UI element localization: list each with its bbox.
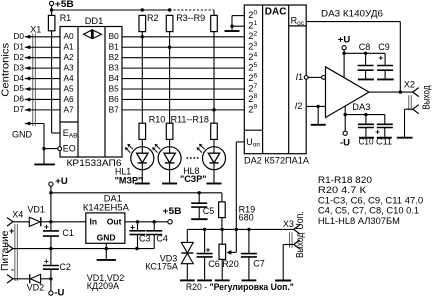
svg-text:X1: X1: [30, 24, 41, 34]
svg-text:C4: C4: [156, 234, 168, 244]
svg-text:C5: C5: [203, 206, 215, 216]
svg-text:B2: B2: [109, 52, 120, 62]
svg-text:D6: D6: [13, 94, 24, 104]
svg-text:КС175А: КС175А: [145, 262, 178, 272]
svg-text:In: In: [90, 216, 98, 226]
svg-text:D2: D2: [13, 52, 24, 62]
svg-text:X2: X2: [404, 80, 415, 90]
svg-text:A7: A7: [64, 104, 75, 114]
svg-text:D4: D4: [13, 73, 24, 83]
svg-text:Uоп.: Uоп.: [295, 211, 306, 230]
svg-text:"МЗР": "МЗР": [115, 176, 143, 186]
svg-text:GND: GND: [97, 232, 116, 242]
svg-text:B7: B7: [109, 104, 120, 114]
svg-text:R2: R2: [147, 13, 159, 23]
svg-text:C10: C10: [359, 136, 374, 146]
svg-text:C7: C7: [253, 259, 265, 269]
svg-text:DD1: DD1: [85, 16, 104, 26]
svg-text:DA3 К140УД6: DA3 К140УД6: [321, 8, 383, 19]
svg-text:КР1533АП6: КР1533АП6: [67, 158, 122, 169]
svg-text:R1: R1: [60, 13, 72, 23]
svg-text:Выход: Выход: [422, 85, 432, 109]
svg-text:A4: A4: [64, 73, 75, 83]
svg-text:ЕО: ЕО: [63, 144, 76, 154]
svg-text:C6: C6: [208, 259, 220, 269]
svg-text:I2: I2: [295, 101, 303, 111]
svg-text:+5В: +5В: [163, 206, 182, 216]
svg-text:+: +: [44, 256, 49, 266]
svg-text:B6: B6: [109, 94, 120, 104]
svg-text:-U: -U: [340, 137, 350, 148]
svg-text:+: +: [206, 245, 211, 255]
svg-text:B3: B3: [109, 63, 120, 73]
svg-text:HL1-HL8 АЛ307БМ: HL1-HL8 АЛ307БМ: [318, 216, 400, 226]
svg-text:+: +: [130, 222, 135, 232]
svg-text:+U: +U: [55, 176, 68, 187]
svg-text:Питание: Питание: [0, 230, 11, 271]
svg-text:D1: D1: [13, 41, 24, 51]
svg-text:D0: D0: [13, 31, 24, 41]
svg-text:B1: B1: [109, 42, 120, 52]
svg-text:R20 4.7 К: R20 4.7 К: [318, 185, 367, 195]
svg-text:GND: GND: [12, 130, 33, 140]
svg-text:R1-R18 820: R1-R18 820: [318, 175, 372, 185]
svg-text:Выход: Выход: [295, 232, 306, 258]
svg-text:B5: B5: [109, 83, 120, 93]
svg-text:C8: C8: [359, 42, 371, 52]
svg-text:R20: R20: [222, 259, 239, 269]
svg-text:-: -: [11, 264, 14, 274]
svg-text:C4, C5, C7, C8, C10 0.1: C4, C5, C7, C8, C10 0.1: [318, 206, 419, 216]
svg-text:C1-C3, C6, C9, C11 47.0: C1-C3, C6, C9, C11 47.0: [318, 195, 423, 205]
svg-text:-U: -U: [54, 288, 64, 297]
svg-text:C3: C3: [139, 234, 151, 244]
svg-text:I1: I1: [296, 72, 304, 82]
svg-text:A0: A0: [64, 31, 75, 41]
svg-text:"СЗР": "СЗР": [180, 174, 207, 184]
svg-text:A3: A3: [64, 63, 75, 73]
svg-text:DA2 К572ПА1А: DA2 К572ПА1А: [244, 155, 310, 166]
svg-text:B0: B0: [109, 31, 120, 41]
svg-text:C2: C2: [59, 262, 71, 272]
svg-text:D7: D7: [13, 104, 24, 114]
svg-text:К142ЕН5А: К142ЕН5А: [83, 203, 130, 214]
svg-text:X4: X4: [12, 210, 23, 220]
svg-text:+: +: [44, 222, 49, 232]
svg-text:КД209А: КД209А: [87, 281, 119, 291]
svg-text:A2: A2: [64, 52, 75, 62]
svg-text:A6: A6: [64, 94, 75, 104]
svg-text:VD1: VD1: [27, 204, 45, 214]
svg-text:A1: A1: [64, 42, 75, 52]
svg-text:Out: Out: [107, 216, 122, 226]
svg-text:+: +: [378, 53, 383, 63]
svg-text:B4: B4: [109, 73, 120, 83]
svg-text:X3: X3: [283, 219, 294, 229]
svg-text:R11--R18: R11--R18: [171, 115, 209, 125]
svg-text:680: 680: [239, 212, 254, 222]
svg-text:C1: C1: [62, 228, 74, 238]
svg-text:+: +: [375, 127, 380, 137]
svg-text:+5В: +5В: [55, 0, 74, 9]
svg-text:D3: D3: [13, 62, 24, 72]
svg-text:DAC: DAC: [265, 6, 287, 17]
svg-text:VD2: VD2: [27, 283, 45, 293]
svg-text:R20 - "Регулировка Uоп.": R20 - "Регулировка Uоп.": [186, 282, 294, 292]
svg-text:C9: C9: [378, 42, 390, 52]
svg-text:C11: C11: [376, 136, 392, 146]
svg-text:D5: D5: [13, 83, 24, 93]
svg-text:+U: +U: [338, 35, 351, 46]
svg-text:R3--R9: R3--R9: [176, 13, 205, 23]
svg-text:Centronics: Centronics: [1, 43, 12, 97]
svg-text:DA3: DA3: [352, 102, 370, 112]
svg-text:R10: R10: [149, 115, 166, 125]
svg-text:A5: A5: [64, 83, 75, 93]
